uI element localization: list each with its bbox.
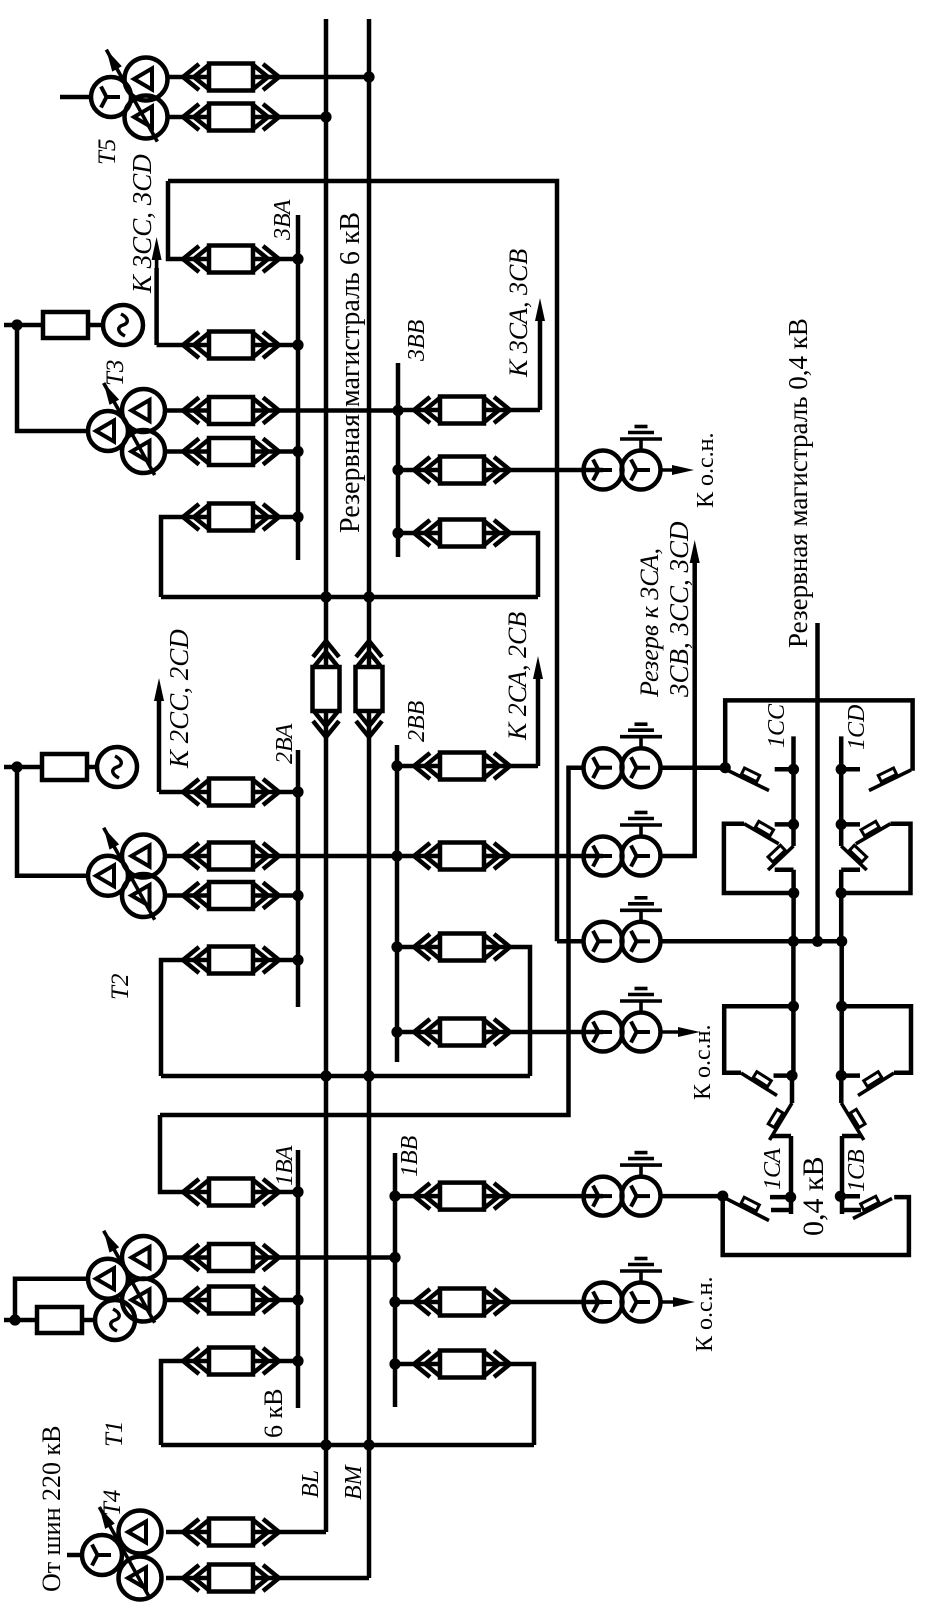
svg-text:Т4: Т4 — [99, 1490, 126, 1516]
transformer T4 — [82, 1535, 122, 1575]
breaker T3-w2 — [183, 439, 199, 465]
node 1CD upper — [836, 764, 847, 775]
node 1CA tap — [786, 1070, 797, 1081]
breaker s2 arrow row — [183, 779, 199, 805]
node 1CA bottom — [785, 1192, 796, 1203]
breaker 1BB-3 — [414, 1351, 430, 1377]
breaker 1BB-1 — [414, 1183, 430, 1209]
wire: s1 loop row — [161, 1361, 209, 1445]
svg-text:3ВВ: 3ВВ — [404, 319, 430, 362]
breaker 3BB-1 — [414, 397, 430, 423]
wire: 1CC stub + blade to lower — [791, 824, 796, 846]
bus 1BB — [393, 1153, 398, 1407]
breaker 2BB-4 — [414, 1019, 430, 1045]
wire: s3 top jumper over magistral — [168, 181, 557, 941]
svg-text:К о.с.н.: К о.с.н. — [693, 432, 719, 508]
node 2BB-1 — [391, 760, 402, 771]
bus 1CC — [791, 736, 796, 824]
node T1-w1 - 1BB — [389, 1252, 400, 1263]
svg-text:Резервная магистраль 0,4 кВ: Резервная магистраль 0,4 кВ — [783, 318, 813, 648]
wire tick 1CB top — [842, 1134, 861, 1139]
node s1 loop row - 1BA — [292, 1355, 303, 1366]
wire: reserve magistral 6 kV line BM — [367, 19, 372, 667]
wire: 1T-1 to board — [661, 1194, 723, 1199]
arrow: to 2CC, 2CD — [157, 700, 162, 792]
wire tick 1CD upper — [841, 767, 860, 772]
arrow: to 2CA, 2CB — [536, 672, 541, 766]
breaker T4-1 — [183, 1519, 199, 1545]
wire: T2 winding2 row — [165, 893, 209, 898]
breaker T1-w1 — [183, 1245, 199, 1271]
arrow: to 3CC, 3CD — [154, 268, 159, 345]
switch 1CA upper blade — [770, 1103, 793, 1140]
wire: T1 winding2 row — [165, 1298, 209, 1303]
svg-text:0,4 кВ: 0,4 кВ — [797, 1156, 830, 1236]
node: T2 feed tap — [11, 761, 22, 772]
node 1CD lower — [836, 819, 847, 830]
transformer 2T-A (feeds 1CC) — [584, 748, 623, 787]
node 1CD bracket — [836, 887, 847, 898]
svg-text:Резервная магистраль 6 кВ: Резервная магистраль 6 кВ — [335, 212, 366, 533]
svg-text:1ВА: 1ВА — [272, 1145, 298, 1186]
wire: T2 winding1 through-row to 2BB — [165, 854, 209, 859]
wire: s1 tap line on magistral — [161, 1443, 534, 1448]
wire: 1CD leg down to 1CB switch — [839, 941, 844, 1075]
wire: T4 primary stub — [67, 1553, 83, 1558]
bus 1CD — [839, 736, 844, 824]
wire: s1 jumper row — [160, 1115, 209, 1192]
svg-text:К 3СС, 3СD: К 3СС, 3СD — [127, 154, 157, 294]
breaker s3 jumper row — [183, 246, 199, 272]
wire: upper-left bracket 1CA — [724, 1006, 793, 1073]
generator G2 — [97, 747, 137, 787]
wire: s3 jumper row (from top loop) — [168, 181, 209, 259]
wire: 1CC bottom leg — [791, 870, 796, 942]
bus 1BA — [296, 1150, 301, 1408]
svg-text:3СВ, 3СС, 3СD: 3СВ, 3СС, 3СD — [664, 521, 694, 698]
node tr3-1CD leg — [836, 936, 847, 947]
wire: reserve magistral 6 kV line BL — [324, 19, 329, 667]
wire tick 1CC upper — [775, 767, 794, 772]
transformer 1T-1 (feeds 1CA 1CB) — [584, 1177, 623, 1216]
svg-text:К 3СА, 3СВ: К 3СА, 3СВ — [504, 249, 533, 378]
node s3 arrow row - 3BA — [292, 339, 303, 350]
wire: 1CC leg down to 1CA switch — [791, 941, 796, 1075]
wire: 2BB row4 to osn transformer — [397, 1030, 440, 1035]
wire: 3BB row3 to tap — [398, 531, 440, 536]
breaker T3-w1 — [183, 398, 199, 424]
transformer T5 — [91, 77, 131, 117]
svg-text:От шин 220 кВ: От шин 220 кВ — [37, 1426, 66, 1592]
switch feed to 1CA — [726, 1199, 769, 1221]
node T2-w1 - 2BB — [391, 850, 402, 861]
wire: G1 chain and T1 primary feed — [4, 1318, 37, 1323]
wire: 1CA tap stub — [790, 1076, 795, 1103]
breaker 2BB row2 — [414, 843, 430, 869]
node tap1-BM — [363, 1439, 374, 1450]
breaker T5-1 — [183, 64, 199, 90]
breaker s3 loop row — [183, 504, 199, 530]
svg-text:Т1: Т1 — [101, 1421, 128, 1447]
node T1-w2 - 1BA — [292, 1294, 303, 1305]
svg-text:Т2: Т2 — [107, 974, 134, 1000]
switch bracket to 1CA tap — [741, 1073, 777, 1096]
wire: T3 winding1 through-row to 3BB — [165, 408, 209, 413]
arrow: K o.s.n. s1 — [661, 1300, 680, 1304]
node 1BB-1 — [389, 1191, 400, 1202]
wire: s2 arrow row — [159, 790, 209, 795]
wire: upper-right bracket 1CB — [842, 1006, 911, 1073]
wire: T5 primary stub — [60, 95, 91, 100]
breaker T5-2 — [183, 104, 199, 130]
wire: bottom bracket 1CA-1CB — [723, 1196, 909, 1255]
wire: 1BB row2 to osn transformer — [395, 1300, 440, 1305]
wire: s1 jumper over magistral to transformer 2T-A — [160, 768, 584, 1115]
wire: upper bracket 1CC-1CD — [725, 700, 912, 770]
svg-text:2ВА: 2ВА — [272, 723, 298, 764]
switch 1CC upper blade — [727, 770, 769, 791]
svg-text:Т3: Т3 — [102, 360, 129, 386]
breaker QBL on magistral BL — [313, 641, 339, 657]
svg-text:6 кВ: 6 кВ — [259, 1389, 288, 1438]
svg-text:К 2СА, 2СВ: К 2СА, 2СВ — [503, 612, 532, 741]
wire: G3 chain and T3 primary feed — [4, 323, 43, 328]
node 1CC lower — [788, 819, 799, 830]
svg-text:Т5: Т5 — [94, 139, 121, 165]
transformer 2T-osn — [584, 1013, 623, 1052]
bus 1CA — [789, 1136, 794, 1214]
svg-text:1ВВ: 1ВВ — [397, 1135, 423, 1177]
transformer 2T-C (feeds 1CD) — [584, 922, 623, 961]
wire: 2T-2 to reserve arrow — [661, 562, 695, 856]
wire: T3 winding2 row — [165, 449, 209, 454]
breaker 3BB-3 — [414, 520, 430, 546]
breaker 2BB-3 — [414, 934, 430, 960]
node: T3 feed tap — [11, 319, 22, 330]
wire tick 1CA tap — [774, 1073, 793, 1078]
node 1BB-3 — [389, 1358, 400, 1369]
wire tick 1CD bottom — [841, 868, 860, 873]
bus 2BB — [395, 745, 400, 1062]
transformer 3T-osn — [584, 451, 623, 490]
svg-text:К о.с.н.: К о.с.н. — [690, 1024, 716, 1100]
wire: s2 tap line on magistral — [161, 1074, 530, 1079]
transformer T1 — [88, 1259, 128, 1299]
node tap2-BL — [320, 1070, 331, 1081]
wire: G2 chain and T2 primary feed — [4, 765, 42, 770]
svg-text:3ВА: 3ВА — [270, 199, 296, 241]
svg-text:1СА: 1СА — [760, 1148, 786, 1190]
breaker s2 loop row — [183, 947, 199, 973]
bus 3BA — [296, 215, 301, 560]
node s1 jumper row - 1BA — [292, 1186, 303, 1197]
node 1BB-2 — [389, 1296, 400, 1307]
node T2-w2 - 2BA — [292, 890, 303, 901]
wire tick 1CB tap — [841, 1073, 860, 1078]
node tr3-1CC leg — [788, 936, 799, 947]
node 3BB-2 — [392, 464, 403, 475]
wire: T5 winding2 row to BL — [167, 115, 209, 120]
wire tick 1CA top — [772, 1134, 791, 1139]
svg-text:К 2СС, 2СD: К 2СС, 2СD — [164, 629, 194, 769]
wire tick 1CB below — [841, 1208, 861, 1213]
node 1CC bracket — [788, 887, 799, 898]
node s2 arrow row - 2BA — [292, 786, 303, 797]
resistor R1 — [37, 1307, 82, 1333]
svg-text:Резерв к 3СА,: Резерв к 3СА, — [635, 548, 664, 698]
node tap3-BM — [363, 591, 374, 602]
svg-text:BM: BM — [341, 1463, 367, 1500]
wire: s3 tap line on magistral — [161, 595, 538, 600]
node 3BB-3 — [392, 527, 403, 538]
node tap3-BL — [320, 591, 331, 602]
switch 1CD lower blade — [841, 846, 867, 870]
node tap1-BL — [320, 1439, 331, 1450]
node 2BB-3 — [391, 941, 402, 952]
node tap2-BM — [363, 1070, 374, 1081]
switch bracket to 1CB — [853, 1199, 892, 1219]
svg-text:1СD: 1СD — [844, 705, 870, 750]
arrow: to 3CA, 3CB — [538, 310, 543, 410]
wire: 1BB row1 to board transformer — [395, 1194, 440, 1199]
svg-text:1СС: 1СС — [764, 703, 790, 748]
node s3 loop row - 3BA — [292, 511, 303, 522]
arrow: K o.s.n. s2 — [661, 1030, 685, 1034]
node: T5-2 to BL — [320, 111, 331, 122]
switch from bracket to 1CD — [856, 824, 891, 844]
wire tick 1CC lower — [775, 822, 794, 827]
wire tick 1CA bottom — [770, 1195, 791, 1200]
svg-text:1СВ: 1СВ — [844, 1149, 870, 1192]
breaker T1-w2 — [183, 1287, 199, 1313]
bus 1CB — [840, 1136, 845, 1214]
node s2 loop row - 2BA — [292, 954, 303, 965]
switch 1CD upper blade — [869, 770, 911, 791]
svg-text:BL: BL — [298, 1470, 324, 1498]
transformer 1T-osn — [584, 1283, 623, 1322]
svg-text:2ВВ: 2ВВ — [404, 700, 430, 742]
wire tick 1CB bottom — [840, 1194, 860, 1199]
node 1CC upper — [788, 764, 799, 775]
breaker s3 arrow row — [183, 332, 199, 358]
wire: 2BB row1 to arrow — [397, 764, 440, 769]
node s3 jumper row - 3BA — [292, 253, 303, 264]
node T3-w2 - 3BA — [292, 446, 303, 457]
bus 2BA — [296, 750, 301, 1007]
breaker T2-w2 — [183, 883, 199, 909]
wire: s2 loop row — [161, 960, 209, 1076]
node: T1 feed tap — [9, 1314, 20, 1325]
breaker T2-w1 — [183, 843, 199, 869]
transformer T2 — [88, 856, 128, 896]
wire: 3BB row2 to osn transformer — [398, 468, 440, 473]
breaker s1 jumper row — [183, 1179, 199, 1205]
wire: 2BB row3 to tap — [397, 945, 440, 950]
wire: s3 jumper leg to transformer 2T-C — [557, 939, 584, 944]
breaker s1 loop row — [183, 1348, 199, 1374]
node feed 1CC board — [720, 762, 731, 773]
bus 3BB — [396, 363, 401, 557]
node 1CB tap — [836, 1070, 847, 1081]
wire tick 1CA below — [771, 1208, 791, 1213]
breaker T4-2 — [183, 1565, 199, 1591]
node tr3-magistral04 — [812, 936, 823, 947]
node T3-w1 - 3BB — [392, 405, 403, 416]
node 2BB-4 — [391, 1026, 402, 1037]
wire: 2T-C output row — [661, 939, 842, 944]
resistor R3 — [43, 312, 88, 338]
arrow: reserve to 3CA 3CB 3CC 3CD — [693, 558, 697, 566]
node 1CB bottom — [835, 1191, 846, 1202]
wire: lower-left bracket 1CC — [724, 824, 794, 893]
wire: 2T-A to 1CC board — [661, 765, 726, 770]
switch 1CC lower blade — [768, 846, 794, 870]
node feed 1CA board — [717, 1191, 728, 1202]
wire: 1BB row3 to tap — [395, 1362, 440, 1367]
resistor R2 — [42, 754, 87, 780]
arrow: K o.s.n. s3 — [661, 468, 679, 472]
switch bracket to 1CB tap — [858, 1073, 894, 1096]
generator G1 — [95, 1300, 135, 1340]
breaker 3BB-2 — [414, 457, 430, 483]
wire: 1CB tap stub — [839, 1076, 844, 1103]
node: T5-1 to BM — [363, 71, 374, 82]
wire: s3 arrow row — [157, 343, 209, 348]
wire: lower-right bracket 1CD — [841, 824, 910, 893]
node 1CB feed upper — [836, 1001, 847, 1012]
svg-text:К о.с.н.: К о.с.н. — [692, 1276, 718, 1352]
generator G3 — [103, 305, 143, 345]
node 1CA feed upper — [788, 1001, 799, 1012]
wire tick 1CD lower — [841, 822, 860, 827]
breaker QBM on magistral BM — [356, 641, 382, 657]
wire: reserve magistral 0.4 kV — [815, 623, 820, 941]
transformer 2T-2 (to reserve 0.4) — [584, 837, 623, 876]
wire: T1 winding1 through-row to 1BB — [165, 1255, 209, 1260]
wire tick 1CC bottom — [775, 868, 794, 873]
wire: 1CD stub — [839, 824, 844, 846]
wire: T5 winding1 row to BM — [167, 75, 209, 80]
breaker 1BB-2 — [414, 1289, 430, 1315]
wire: s3 loop row — [161, 517, 209, 597]
transformer T3 — [88, 411, 128, 451]
switch from bracket to 1CC — [744, 824, 779, 844]
wire: 1CD bottom leg — [839, 870, 844, 942]
wire: 3BB row1 to arrow — [398, 408, 440, 413]
breaker 2BB-1 — [414, 753, 430, 779]
switch 1CB upper blade — [841, 1103, 864, 1140]
